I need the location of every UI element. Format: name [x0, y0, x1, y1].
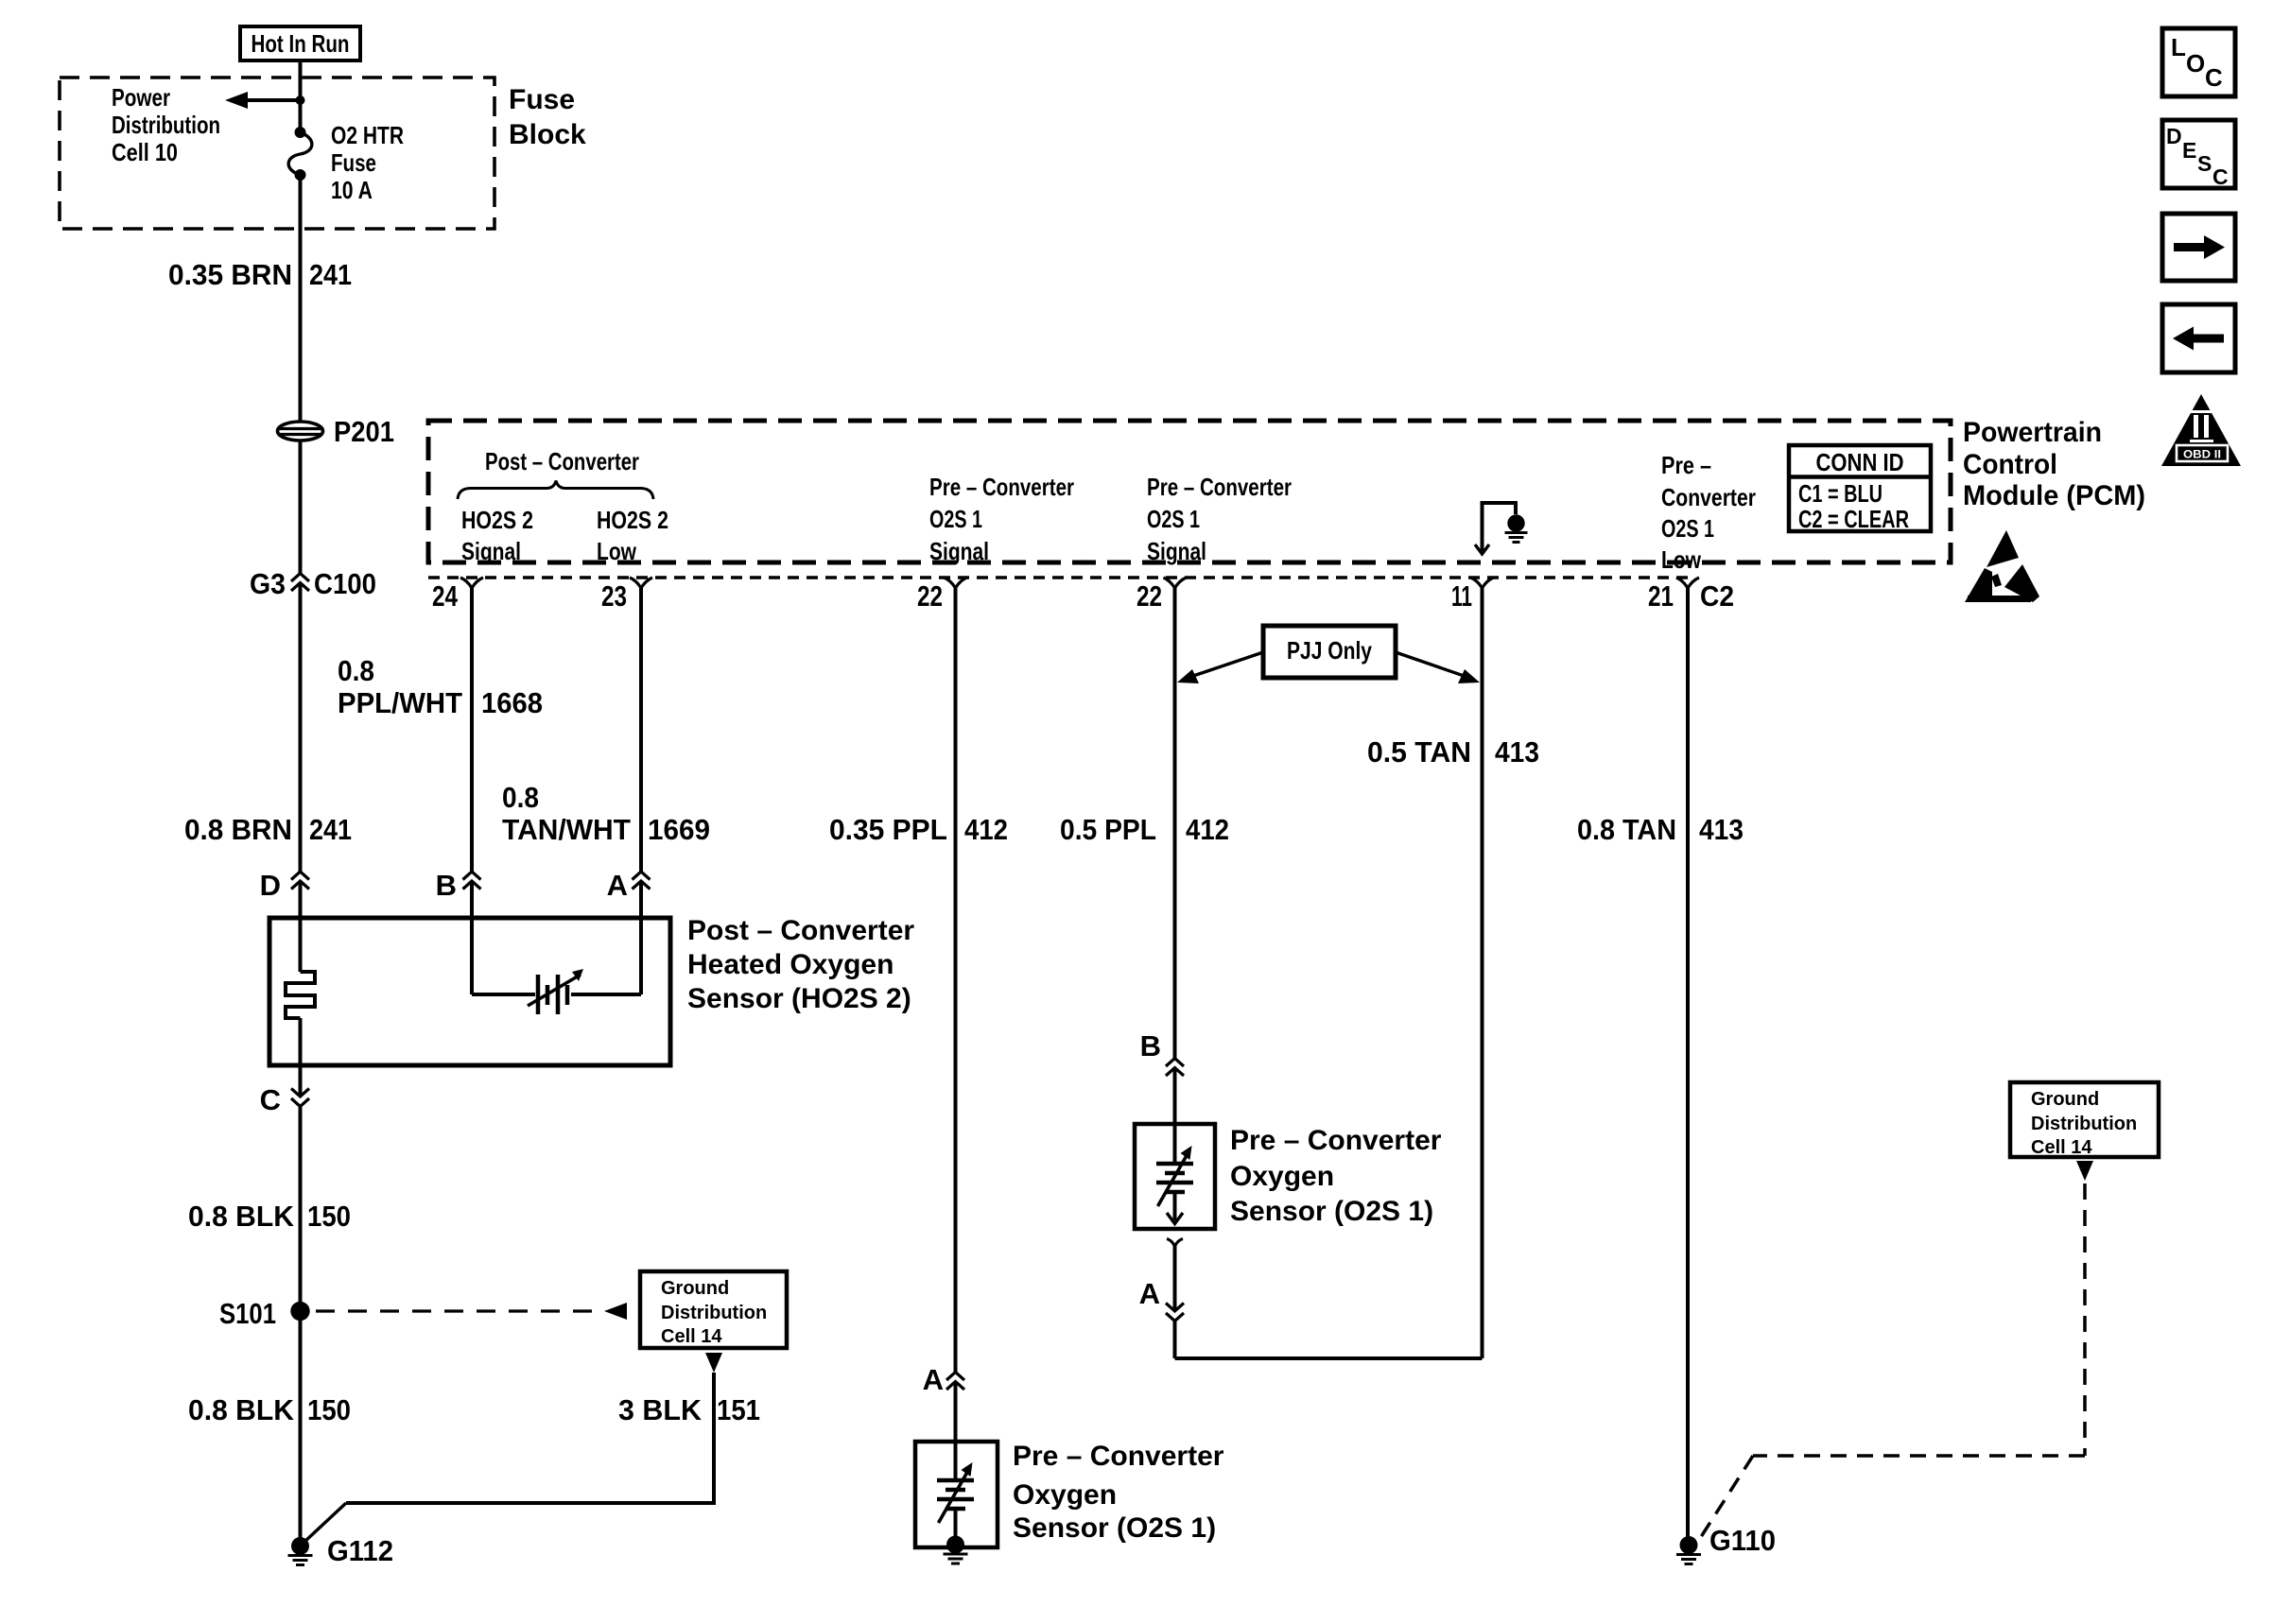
- svg-text:O2S 1: O2S 1: [1661, 514, 1714, 543]
- svg-text:HO2S 2: HO2S 2: [461, 506, 533, 534]
- svg-text:Oxygen: Oxygen: [1013, 1479, 1117, 1511]
- svg-text:Ground: Ground: [661, 1278, 729, 1299]
- svg-text:413: 413: [1699, 813, 1744, 846]
- svg-text:Oxygen: Oxygen: [1230, 1161, 1334, 1192]
- svg-text:Powertrain: Powertrain: [1963, 417, 2102, 448]
- svg-text:413: 413: [1495, 735, 1539, 769]
- svg-text:241: 241: [309, 258, 352, 291]
- svg-text:Fuse: Fuse: [331, 148, 376, 177]
- svg-text:Power: Power: [112, 83, 170, 112]
- svg-text:Ground: Ground: [2031, 1089, 2099, 1110]
- svg-text:10 A: 10 A: [331, 176, 373, 204]
- svg-text:A: A: [923, 1363, 944, 1396]
- svg-text:22: 22: [917, 579, 943, 613]
- svg-text:Distribution: Distribution: [661, 1303, 767, 1323]
- svg-text:C: C: [2212, 164, 2229, 189]
- svg-text:0.35 BRN: 0.35 BRN: [168, 258, 292, 291]
- svg-text:Cell 14: Cell 14: [661, 1326, 722, 1347]
- svg-text:S: S: [2197, 151, 2212, 176]
- svg-text:Signal: Signal: [929, 537, 989, 565]
- svg-text:0.35 PPL: 0.35 PPL: [829, 813, 947, 846]
- svg-text:Pre – Converter: Pre – Converter: [1147, 473, 1292, 501]
- svg-text:0.8 BLK: 0.8 BLK: [188, 1200, 295, 1233]
- svg-text:C2: C2: [1700, 579, 1734, 613]
- svg-text:O2S 1: O2S 1: [1147, 505, 1200, 533]
- svg-text:151: 151: [717, 1393, 760, 1426]
- svg-text:Distribution: Distribution: [2031, 1114, 2137, 1134]
- svg-text:150: 150: [307, 1393, 351, 1426]
- svg-text:C: C: [260, 1083, 281, 1116]
- svg-text:Sensor (O2S 1): Sensor (O2S 1): [1230, 1196, 1433, 1227]
- svg-text:150: 150: [307, 1200, 351, 1233]
- svg-text:Pre – Converter: Pre – Converter: [1230, 1125, 1442, 1156]
- svg-text:Post – Converter: Post – Converter: [485, 447, 639, 475]
- svg-text:A: A: [607, 869, 628, 902]
- svg-text:412: 412: [1186, 813, 1229, 846]
- svg-text:Signal: Signal: [461, 537, 521, 565]
- svg-text:O: O: [2186, 49, 2205, 78]
- svg-text:23: 23: [601, 579, 627, 613]
- svg-text:PJJ Only: PJJ Only: [1287, 636, 1372, 665]
- svg-text:G112: G112: [327, 1534, 393, 1567]
- svg-text:Pre – Converter: Pre – Converter: [1013, 1441, 1224, 1472]
- svg-text:Control: Control: [1963, 449, 2057, 480]
- svg-text:Signal: Signal: [1147, 537, 1206, 565]
- svg-text:PPL/WHT: PPL/WHT: [338, 686, 462, 719]
- svg-text:D: D: [260, 869, 281, 902]
- svg-text:Pre –: Pre –: [1661, 451, 1711, 479]
- svg-text:Cell 10: Cell 10: [112, 138, 178, 166]
- svg-text:TAN/WHT: TAN/WHT: [502, 813, 631, 846]
- svg-text:11: 11: [1451, 579, 1472, 613]
- svg-text:CONN ID: CONN ID: [1816, 448, 1904, 476]
- svg-text:0.5 PPL: 0.5 PPL: [1060, 813, 1156, 846]
- svg-text:G3: G3: [250, 567, 286, 600]
- svg-text:0.8: 0.8: [502, 781, 539, 814]
- svg-text:1668: 1668: [481, 686, 543, 719]
- svg-text:A: A: [1139, 1277, 1160, 1310]
- svg-text:D: D: [2166, 124, 2182, 148]
- svg-text:Hot In Run: Hot In Run: [252, 29, 350, 58]
- svg-text:L: L: [2171, 33, 2186, 61]
- svg-text:24: 24: [432, 579, 459, 613]
- svg-text:HO2S 2: HO2S 2: [597, 506, 668, 534]
- svg-text:Fuse: Fuse: [509, 84, 575, 115]
- svg-text:Distribution: Distribution: [112, 111, 220, 139]
- svg-text:Post – Converter: Post – Converter: [687, 915, 914, 946]
- svg-text:E: E: [2182, 138, 2196, 163]
- svg-text:3 BLK: 3 BLK: [618, 1393, 703, 1426]
- svg-text:22: 22: [1136, 579, 1162, 613]
- svg-text:C2 = CLEAR: C2 = CLEAR: [1798, 505, 1909, 533]
- svg-text:C: C: [2205, 63, 2223, 92]
- svg-text:0.8 BLK: 0.8 BLK: [188, 1393, 295, 1426]
- svg-text:P201: P201: [334, 415, 394, 448]
- svg-text:0.8 TAN: 0.8 TAN: [1577, 813, 1676, 846]
- svg-text:1669: 1669: [648, 813, 710, 846]
- svg-text:Pre – Converter: Pre – Converter: [929, 473, 1074, 501]
- svg-text:0.5 TAN: 0.5 TAN: [1367, 735, 1471, 769]
- svg-text:G110: G110: [1709, 1524, 1776, 1557]
- svg-text:Converter: Converter: [1661, 483, 1756, 511]
- svg-text:21: 21: [1648, 579, 1674, 613]
- svg-text:O2S 1: O2S 1: [929, 505, 982, 533]
- svg-text:O2 HTR: O2 HTR: [331, 121, 404, 149]
- svg-text:Sensor (HO2S 2): Sensor (HO2S 2): [687, 983, 911, 1014]
- svg-text:C100: C100: [314, 567, 376, 600]
- svg-text:Sensor (O2S 1): Sensor (O2S 1): [1013, 1512, 1216, 1544]
- svg-text:OBD II: OBD II: [2183, 448, 2221, 461]
- svg-text:0.8: 0.8: [338, 654, 374, 687]
- svg-text:0.8 BRN: 0.8 BRN: [184, 813, 292, 846]
- svg-text:Low: Low: [1661, 545, 1702, 574]
- svg-text:S101: S101: [219, 1297, 276, 1330]
- svg-text:B: B: [436, 869, 457, 902]
- svg-text:Module (PCM): Module (PCM): [1963, 480, 2145, 511]
- svg-text:Cell 14: Cell 14: [2031, 1137, 2092, 1158]
- svg-text:Heated Oxygen: Heated Oxygen: [687, 949, 894, 980]
- svg-text:Low: Low: [597, 537, 637, 565]
- svg-text:Block: Block: [509, 119, 586, 150]
- svg-text:241: 241: [309, 813, 352, 846]
- svg-text:412: 412: [964, 813, 1008, 846]
- svg-text:B: B: [1140, 1029, 1161, 1063]
- svg-text:C1 = BLU: C1 = BLU: [1798, 479, 1883, 508]
